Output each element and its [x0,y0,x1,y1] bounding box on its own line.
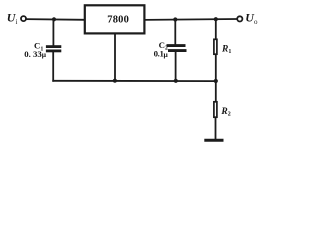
wire C2 upper [174,20,176,45]
capacitor C1 [46,47,61,51]
junction dot C2 bottom [174,79,178,83]
svg-text:Uo: Uo [245,11,258,26]
junction dot pin bottom [113,79,117,83]
junction dot C2 top [173,17,177,21]
junction dot C1 top [52,17,56,21]
wire R1 lower [215,55,217,81]
junction dot R bottom [214,79,218,83]
wire R2 lower [215,118,217,139]
wire C2 lower [175,52,177,81]
resistor R2 [214,102,217,117]
svg-text:Ui: Ui [7,11,18,26]
terminal Uo [237,16,242,21]
svg-text:7800: 7800 [107,15,129,26]
wire R2 upper [215,81,217,102]
svg-text:0. 33μ: 0. 33μ [24,49,47,59]
wire R1 upper [215,19,217,38]
svg-text:R1: R1 [221,44,231,55]
wire output [146,18,237,21]
svg-text:0.1μ: 0.1μ [154,48,169,59]
svg-text:R2: R2 [220,107,230,118]
wire C1 lower [52,52,54,81]
wire C1 upper [52,19,54,45]
ground [204,139,223,142]
junction dot R1 top [214,17,218,21]
regulator U1 7800 box [85,5,145,33]
capacitor C2 [167,46,187,51]
wire regulator ground pin [114,34,116,81]
terminal Ui [21,16,26,21]
bottom wire [53,80,216,82]
resistor R1 [214,39,217,54]
wire input [26,18,84,21]
